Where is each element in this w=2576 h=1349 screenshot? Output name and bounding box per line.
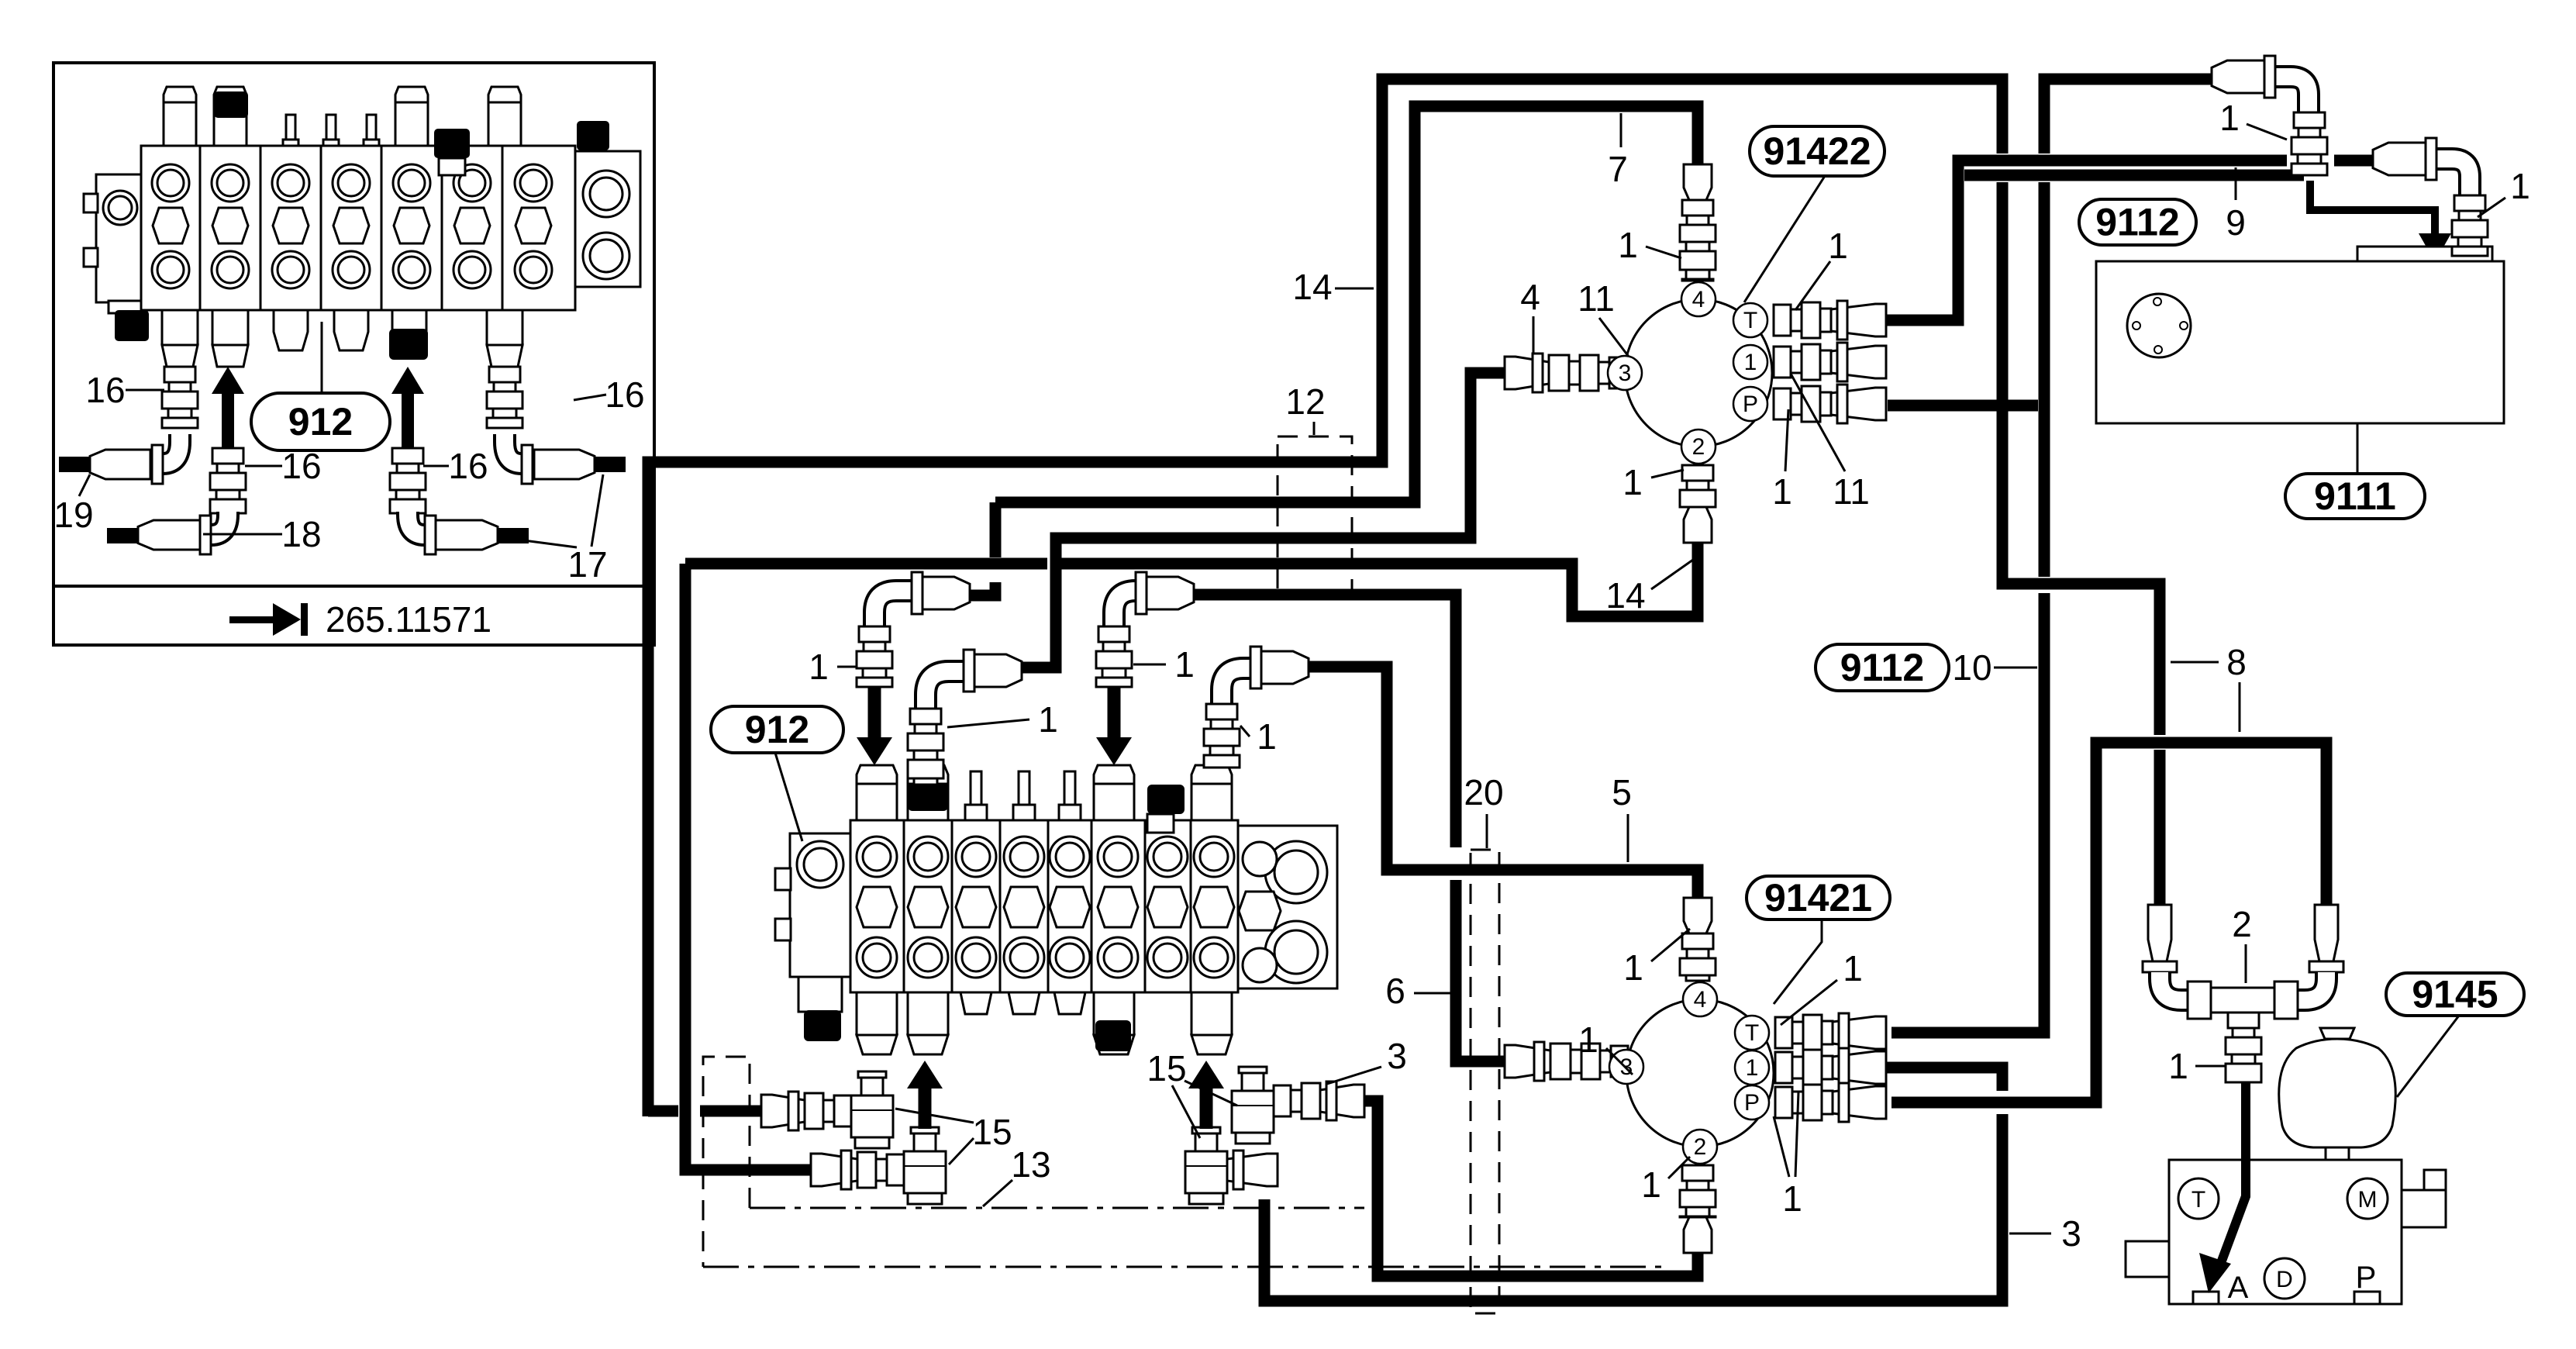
tee fitting 2 body — [2209, 988, 2278, 1013]
wire hose 8 from distributor 91421 port P to tee — [1891, 743, 2326, 1102]
adapter 1 stack below tee — [2226, 1013, 2261, 1082]
svg-text:T: T — [1745, 1020, 1759, 1046]
tee sleeve nut left — [2143, 961, 2177, 972]
fitting stack at 91422 port 4 — [1680, 164, 1716, 281]
svg-text:T: T — [2191, 1187, 2205, 1213]
svg-text:20: 20 — [1464, 772, 1503, 813]
inset elbow left outer — [90, 434, 180, 484]
inset stack 16 left outer — [162, 367, 198, 428]
fitting stack at 91421 port 2 — [1680, 1165, 1716, 1253]
svg-text:2: 2 — [1694, 1134, 1707, 1160]
label 912 main — [711, 706, 843, 753]
leader 17 a — [518, 540, 577, 547]
node port 1 of 91422 — [1733, 345, 1767, 379]
svg-text:18: 18 — [281, 514, 321, 554]
leader 8 down — [2239, 682, 2241, 732]
svg-text:16: 16 — [605, 374, 644, 415]
inset flow arrow left — [212, 367, 244, 448]
wire hose 3 from distributor 91421 port 1 — [1886, 1068, 2002, 1091]
leader 9145 to dome — [2397, 1016, 2459, 1097]
svg-text:15: 15 — [1147, 1048, 1186, 1089]
wire hose 4 from distributor 91422 port 3 — [1019, 373, 1505, 668]
label 9111 — [2285, 474, 2425, 519]
svg-text:1: 1 — [1744, 350, 1757, 375]
svg-text:16: 16 — [448, 446, 488, 486]
adapter 1 stack chain B on tower 2 — [908, 709, 943, 785]
T-block 15 left lower — [904, 1127, 946, 1204]
fitting chain at 91422 port P — [1774, 385, 1886, 423]
label 91421 — [1747, 876, 1890, 919]
label 9112 top — [2079, 199, 2196, 245]
wire hose 9 from distributor 91422 port T — [1886, 160, 2287, 320]
svg-text:1: 1 — [1623, 462, 1643, 502]
wire hose 14 left segment — [685, 558, 1047, 570]
svg-text:15: 15 — [972, 1112, 1012, 1152]
adapter 1 stack at tank inlet A — [2292, 112, 2327, 175]
leader 5 — [1627, 814, 1629, 862]
leader 1 91421 P b — [1795, 1092, 1798, 1177]
svg-text:19: 19 — [53, 495, 93, 535]
leader 91421 to circle — [1774, 919, 1822, 1004]
fitting chain at 91422 port T — [1774, 301, 1886, 340]
leader 20 — [1486, 814, 1488, 848]
leader 9 — [2235, 167, 2237, 200]
elbow fitting on hose 10 at tank — [2212, 56, 2309, 112]
pump right small block — [2424, 1170, 2446, 1190]
label 91422 — [1750, 126, 1885, 176]
svg-text:1: 1 — [1772, 471, 1792, 512]
wire hose riser to T-block 2 — [685, 564, 811, 1170]
node port 4 of 91422 — [1681, 282, 1716, 316]
svg-text:1: 1 — [1782, 1178, 1802, 1219]
node port T of pump — [2178, 1178, 2219, 1219]
svg-text:6: 6 — [1385, 971, 1405, 1011]
fitting chain at 91421 port 3 — [1505, 1042, 1628, 1081]
inset elbow 17b — [408, 512, 498, 554]
valve bank 912 main assembly — [775, 765, 1337, 1054]
svg-text:T: T — [1743, 308, 1757, 333]
label 912 inset — [251, 393, 390, 450]
chain line 13 lower — [703, 1266, 1663, 1268]
leader 1 tee — [2195, 1065, 2226, 1068]
leader 16 mid-left — [245, 465, 282, 467]
tee fitting nut left — [2188, 982, 2211, 1019]
svg-text:1: 1 — [1641, 1164, 1661, 1205]
svg-text:1: 1 — [1038, 699, 1058, 740]
leader 1 chain A — [837, 666, 856, 668]
tank 9111 flange — [2127, 294, 2191, 357]
wire hose 3 lower run — [1264, 1114, 2002, 1301]
fitting chain at 91421 port 1 — [1775, 1048, 1886, 1087]
svg-text:A: A — [2228, 1271, 2249, 1305]
node port 2 of 91421 — [1683, 1130, 1717, 1164]
inset hose stub 18 — [107, 528, 138, 543]
svg-text:12: 12 — [1285, 381, 1325, 422]
dashed box at bank lower left — [703, 1057, 750, 1267]
label 9145 — [2386, 973, 2524, 1016]
inset elbow right outer — [505, 434, 595, 484]
rotary distributor 91422 body circle — [1625, 299, 1772, 447]
svg-text:9: 9 — [2226, 202, 2246, 243]
leader 14 lower — [1651, 560, 1693, 589]
svg-text:10: 10 — [1952, 647, 1991, 688]
leader 1 chain C — [1240, 726, 1250, 737]
node port T of 91422 — [1733, 303, 1767, 337]
inset reference arrow — [229, 603, 308, 636]
leader 1 tank elbow A — [2247, 124, 2287, 140]
svg-text:P: P — [1743, 392, 1758, 417]
leader 16 mid-right — [423, 465, 449, 467]
svg-text:3: 3 — [1387, 1036, 1407, 1076]
leader 18 — [203, 533, 282, 536]
node port P of 91422 — [1733, 387, 1767, 421]
svg-text:1: 1 — [1843, 948, 1863, 988]
T-block 15 right lower — [1185, 1127, 1227, 1204]
tee bent tube left — [2160, 972, 2198, 1000]
leader 17 b — [591, 474, 603, 547]
svg-text:13: 13 — [1011, 1144, 1050, 1185]
svg-text:1: 1 — [2510, 166, 2530, 206]
leader 15 left b — [949, 1138, 974, 1164]
svg-text:16: 16 — [281, 446, 321, 486]
chain line 13 upper — [750, 1207, 1364, 1209]
tank 9111 top plate — [2357, 247, 2492, 261]
svg-text:3: 3 — [2061, 1213, 2081, 1254]
flow arrow up into tower 4 bottom — [1188, 1061, 1224, 1129]
adapter 1 stack chain C on tower 4 — [1204, 704, 1240, 768]
svg-text:14: 14 — [1605, 575, 1645, 616]
node port 3 of 91422 — [1608, 356, 1642, 390]
leader 1 91421 T — [1781, 980, 1837, 1025]
fitting chain at 91422 port 1 — [1774, 343, 1886, 381]
leader 1 tank elbow B — [2478, 198, 2505, 217]
inset hose stub 19 — [59, 457, 90, 472]
svg-text:1: 1 — [1828, 226, 1848, 266]
adapter 1 stack at tank inlet B — [2452, 195, 2488, 256]
adapter 1 stack chain A — [857, 626, 892, 687]
flow arrow into tower 3 — [1096, 687, 1132, 765]
svg-text:2: 2 — [2232, 904, 2252, 944]
leader 1 chain D — [1133, 664, 1166, 666]
leader 3 left — [1327, 1067, 1381, 1084]
leader 912 inset — [321, 322, 323, 393]
svg-text:9112: 9112 — [1840, 646, 1924, 689]
wire hose to T-block 1 left stub — [648, 1106, 678, 1117]
wire hose 14 from distributor 91422 port 2 — [1061, 541, 1698, 616]
wire hose 10 from distributor 91421 port T — [1891, 593, 2044, 1033]
node port 1 of 91421 — [1735, 1051, 1769, 1085]
svg-text:P: P — [2356, 1261, 2377, 1295]
tee sleeve nut right — [2309, 961, 2343, 972]
svg-text:17: 17 — [567, 544, 607, 585]
leader 1 91421 port2 — [1668, 1157, 1690, 1178]
wire hose 6 lower segment to distributor 91421 port 3 — [1456, 880, 1505, 1061]
flow line into tank port — [2310, 181, 2435, 237]
tee hose sleeve right — [2315, 905, 2338, 961]
wire hose from distributor 91422 port P — [1888, 400, 2038, 412]
accumulator cap — [2320, 1028, 2354, 1039]
elbow fitting on hose 9 at tank — [2373, 138, 2470, 195]
inset stack 16 right outer — [487, 367, 522, 428]
wire hose 10 top segment to tank elbow — [2044, 79, 2214, 154]
inset frame — [53, 63, 654, 645]
leader 15 right b — [1172, 1085, 1200, 1138]
svg-text:D: D — [2276, 1267, 2293, 1292]
valve bank 912 inset assembly — [84, 87, 640, 367]
leader 13 — [983, 1180, 1012, 1206]
svg-text:2: 2 — [1692, 434, 1705, 460]
svg-text:1: 1 — [1578, 1020, 1598, 1060]
leader 1 91422 port2 — [1651, 470, 1684, 478]
wire hose 10 middle segment — [2039, 182, 2050, 577]
inset stack 16 mid-right — [390, 448, 426, 513]
elbow chain D to tower 3 — [1114, 572, 1194, 667]
svg-text:4: 4 — [1692, 287, 1705, 312]
inset flow arrow right — [391, 367, 424, 448]
node port M of pump — [2347, 1178, 2388, 1219]
wire hose 9 right segment to tank elbow — [2334, 155, 2374, 167]
leader 1 91421 P a — [1774, 1116, 1789, 1177]
dashed box 20 — [1471, 850, 1499, 1313]
wire hose 7 drop upper — [990, 502, 1002, 557]
svg-text:M: M — [2358, 1187, 2378, 1213]
leader 4 — [1533, 316, 1535, 354]
leader 2 — [2245, 944, 2247, 983]
svg-text:5: 5 — [1612, 772, 1632, 813]
svg-text:265.11571: 265.11571 — [326, 599, 491, 640]
T-block 15 left upper — [851, 1071, 893, 1148]
wire hose-12 bundle lower segment to tee — [2002, 182, 2160, 735]
leader 1 91421 port3 — [1606, 1048, 1633, 1075]
leader 6 — [1414, 992, 1451, 995]
elbow chain B to tower 2 — [926, 650, 1022, 709]
elbow chain A to tower 1 — [874, 572, 970, 667]
flow arrow into tower 1 — [857, 687, 892, 765]
wire hose 7 from distributor 91422 port 4 — [995, 106, 1698, 502]
node port 4 of 91421 — [1683, 982, 1717, 1016]
wire hose to T-block 1 right stub — [700, 1106, 761, 1117]
svg-text:8: 8 — [2226, 642, 2247, 682]
rotary distributor 91421 body circle — [1626, 999, 1774, 1147]
node port P of 91421 — [1735, 1085, 1769, 1120]
svg-text:1: 1 — [1623, 947, 1643, 988]
elbow chain C to tower 4 — [1222, 647, 1309, 704]
leader 91422 to circle — [1744, 176, 1825, 302]
svg-text:9111: 9111 — [2314, 474, 2396, 518]
inset hose stub 17a — [595, 457, 626, 472]
leader 16 right outer — [574, 395, 606, 400]
accumulator dome 9145 — [2279, 1039, 2396, 1147]
leader 912 main — [775, 753, 802, 841]
leader 14 upper — [1335, 288, 1374, 290]
fitting chain at 91422 port 3 — [1505, 354, 1626, 392]
node port D of pump — [2264, 1258, 2305, 1299]
wire hose to tank adapter — [1964, 170, 2304, 181]
svg-text:4: 4 — [1694, 987, 1707, 1013]
adapter 1 stack chain D — [1096, 626, 1132, 687]
fitting chain at 91421 port P — [1775, 1083, 1886, 1122]
inset hose stub 17b — [498, 528, 529, 543]
T-block 15 right upper — [1232, 1067, 1274, 1144]
leader 3 right — [2009, 1233, 2051, 1235]
pump bottom pad P — [2354, 1292, 2380, 1304]
tee hose sleeve left — [2148, 905, 2171, 961]
node port T of 91421 — [1735, 1016, 1769, 1050]
leader 16 left outer — [126, 389, 164, 392]
svg-text:4: 4 — [1520, 277, 1540, 317]
svg-text:3: 3 — [1619, 361, 1632, 386]
svg-text:1: 1 — [809, 647, 829, 687]
leader 1 chain B — [947, 719, 1029, 727]
svg-text:16: 16 — [85, 370, 125, 410]
leader tank to label 9111 — [2357, 423, 2359, 474]
accumulator stem — [2326, 1147, 2349, 1160]
wire hose 6 upper segment — [1191, 595, 1456, 847]
svg-text:1: 1 — [1618, 225, 1638, 265]
svg-text:P: P — [1744, 1090, 1760, 1116]
svg-text:14: 14 — [1292, 267, 1332, 307]
wire hose-12 bundle: left riser and top run to tank area — [648, 79, 2002, 1116]
svg-text:912: 912 — [745, 708, 809, 751]
fitting stack at 91422 port 2 — [1680, 465, 1716, 543]
svg-text:11: 11 — [1833, 471, 1870, 512]
svg-text:1: 1 — [1257, 716, 1277, 757]
pump block 9145 — [2169, 1160, 2402, 1304]
pump left port block — [2126, 1241, 2169, 1277]
fitting chain at 91421 port T — [1775, 1013, 1886, 1052]
pump bottom pad A — [2193, 1292, 2219, 1304]
dashed box 12 — [1278, 436, 1352, 593]
svg-text:11: 11 — [1578, 278, 1615, 319]
tee fitting nut right — [2274, 982, 2298, 1019]
tank 9111 body — [2096, 261, 2504, 423]
svg-text:7: 7 — [1608, 149, 1628, 189]
inset elbow 18 — [138, 512, 228, 554]
leader 1 91422 T — [1795, 261, 1830, 310]
fitting chain from right lower T-block — [1227, 1151, 1278, 1189]
inset divider line — [53, 585, 654, 588]
flow arrow up into tower 2 bottom — [907, 1061, 943, 1129]
leader 11 91422 — [1791, 374, 1845, 471]
svg-text:1: 1 — [2219, 98, 2240, 138]
pump right port block — [2402, 1190, 2446, 1227]
leader 7 — [1620, 113, 1623, 147]
leader 15 right a — [1185, 1081, 1237, 1106]
leader 1 91422 P — [1785, 409, 1788, 471]
svg-text:9112: 9112 — [2095, 201, 2179, 244]
svg-text:912: 912 — [288, 400, 353, 443]
fitting chain to T-block 1 — [761, 1092, 851, 1130]
leader 1 91422 port4 — [1646, 247, 1681, 258]
label 9112 bottom — [1816, 644, 1949, 691]
wire hose 7 drop to elbow — [963, 582, 995, 595]
svg-text:91422: 91422 — [1763, 129, 1871, 173]
tee bent tube right — [2288, 972, 2326, 1000]
leader 15 left a — [895, 1109, 974, 1123]
wire hose-12 tee drop segment — [2154, 750, 2166, 905]
svg-text:1: 1 — [1174, 644, 1195, 685]
wire hose 3 from right T-block to distributor 91421 port 2 — [1363, 1101, 1698, 1276]
node port 3 of 91421 — [1609, 1050, 1643, 1084]
inset stack 16 mid-left — [210, 448, 246, 513]
leader 8 left — [2171, 661, 2219, 664]
wire hose 5 to distributor 91421 port 4 — [1309, 667, 1698, 898]
svg-text:1: 1 — [2168, 1046, 2188, 1086]
fitting chain from right upper T-block — [1274, 1082, 1364, 1120]
svg-text:1: 1 — [1746, 1055, 1759, 1081]
node port 2 of 91422 — [1681, 430, 1716, 464]
leader 12 — [1313, 422, 1316, 435]
leader 11 upper — [1599, 318, 1629, 357]
fitting stack at 91421 port 4 — [1680, 898, 1716, 981]
fitting chain to T-block 2 — [811, 1151, 904, 1189]
leader 1 91421 port4 — [1651, 929, 1690, 961]
svg-text:9145: 9145 — [2412, 973, 2498, 1016]
svg-text:91421: 91421 — [1764, 876, 1872, 919]
leader 19 — [79, 474, 90, 496]
leader 10 — [1994, 667, 2037, 669]
flow line pump port A — [2219, 1082, 2246, 1269]
